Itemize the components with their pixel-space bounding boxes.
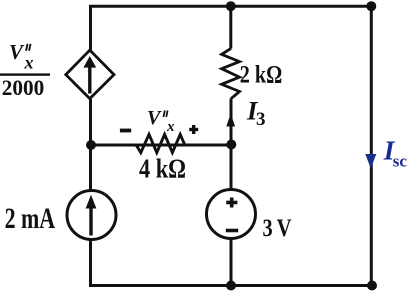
svg-text:x: x	[24, 53, 34, 73]
svg-text:2000: 2000	[2, 75, 45, 100]
svg-text:V: V	[147, 107, 162, 129]
svg-text:3 V: 3 V	[263, 215, 292, 242]
svg-text:2 mA: 2 mA	[5, 203, 56, 235]
svg-text:x: x	[166, 119, 175, 135]
svg-text:2 kΩ: 2 kΩ	[240, 62, 282, 89]
svg-text:V: V	[9, 40, 25, 64]
svg-text:4 kΩ: 4 kΩ	[139, 154, 186, 184]
svg-text:sc: sc	[393, 152, 408, 171]
svg-text:3: 3	[256, 109, 266, 130]
